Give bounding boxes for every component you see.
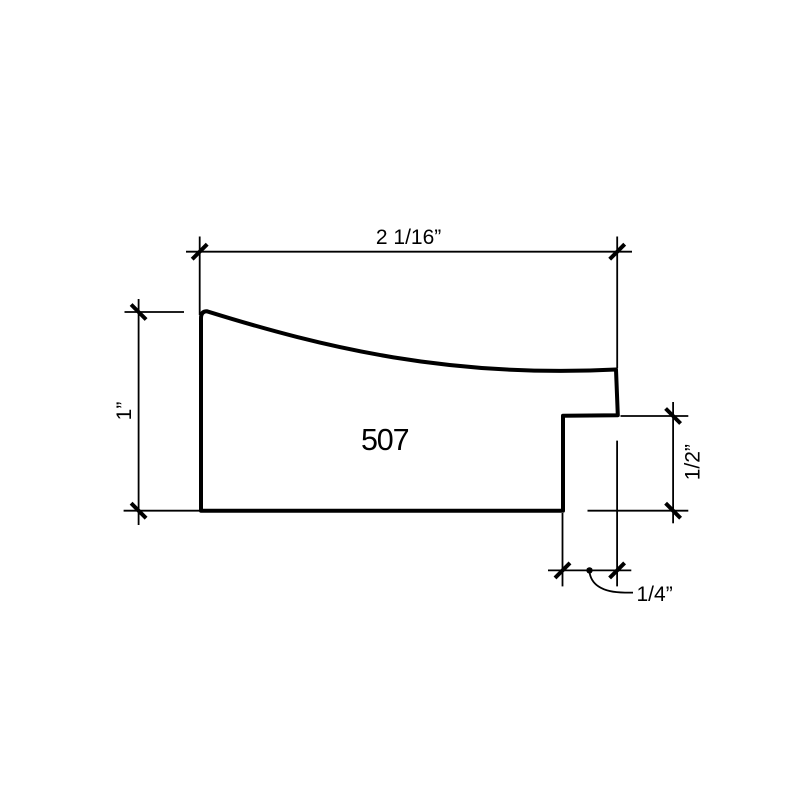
extension line: right dim top (y=416): [621, 415, 689, 417]
dimension line: 1/2 inch vertical: [672, 402, 674, 523]
leader dot: [586, 567, 592, 573]
extension line: top dim right (x=617.2): [616, 237, 618, 369]
moulding profile outline 507: [201, 311, 618, 511]
tick: top dim left: [192, 244, 207, 259]
tick: left dim top: [131, 305, 146, 320]
svg-text:1”: 1”: [113, 402, 136, 421]
tick: top dim right: [610, 244, 625, 259]
tick: left dim bottom: [131, 503, 146, 518]
extension line: top dim left (x=199.7): [199, 237, 201, 316]
dimension line: 1 inch vertical: [138, 299, 140, 525]
dimension line: 1/4 inch horizontal: [548, 569, 631, 571]
svg-text:507: 507: [361, 423, 409, 457]
tick: right dim top: [666, 409, 681, 424]
svg-text:2 1/16”: 2 1/16”: [376, 226, 441, 249]
extension line: right dim bottom (y=510.7): [588, 510, 689, 512]
extension line: left dim bottom (y=510.7): [124, 510, 201, 512]
extension line: bottom dim left (x=562.5): [562, 513, 564, 586]
leader curve: [590, 572, 634, 593]
svg-text:1/4”: 1/4”: [637, 583, 673, 606]
extension line: bottom dim right (x=617.1): [616, 441, 618, 587]
svg-text:1/2”: 1/2”: [681, 444, 704, 480]
tick: right dim bottom: [666, 503, 681, 518]
dimension line: 2 1/16 horizontal: [186, 251, 632, 253]
tick: bottom dim left: [555, 563, 570, 578]
tick: bottom dim right: [610, 563, 625, 578]
extension line: left dim top (y=312): [125, 311, 185, 313]
